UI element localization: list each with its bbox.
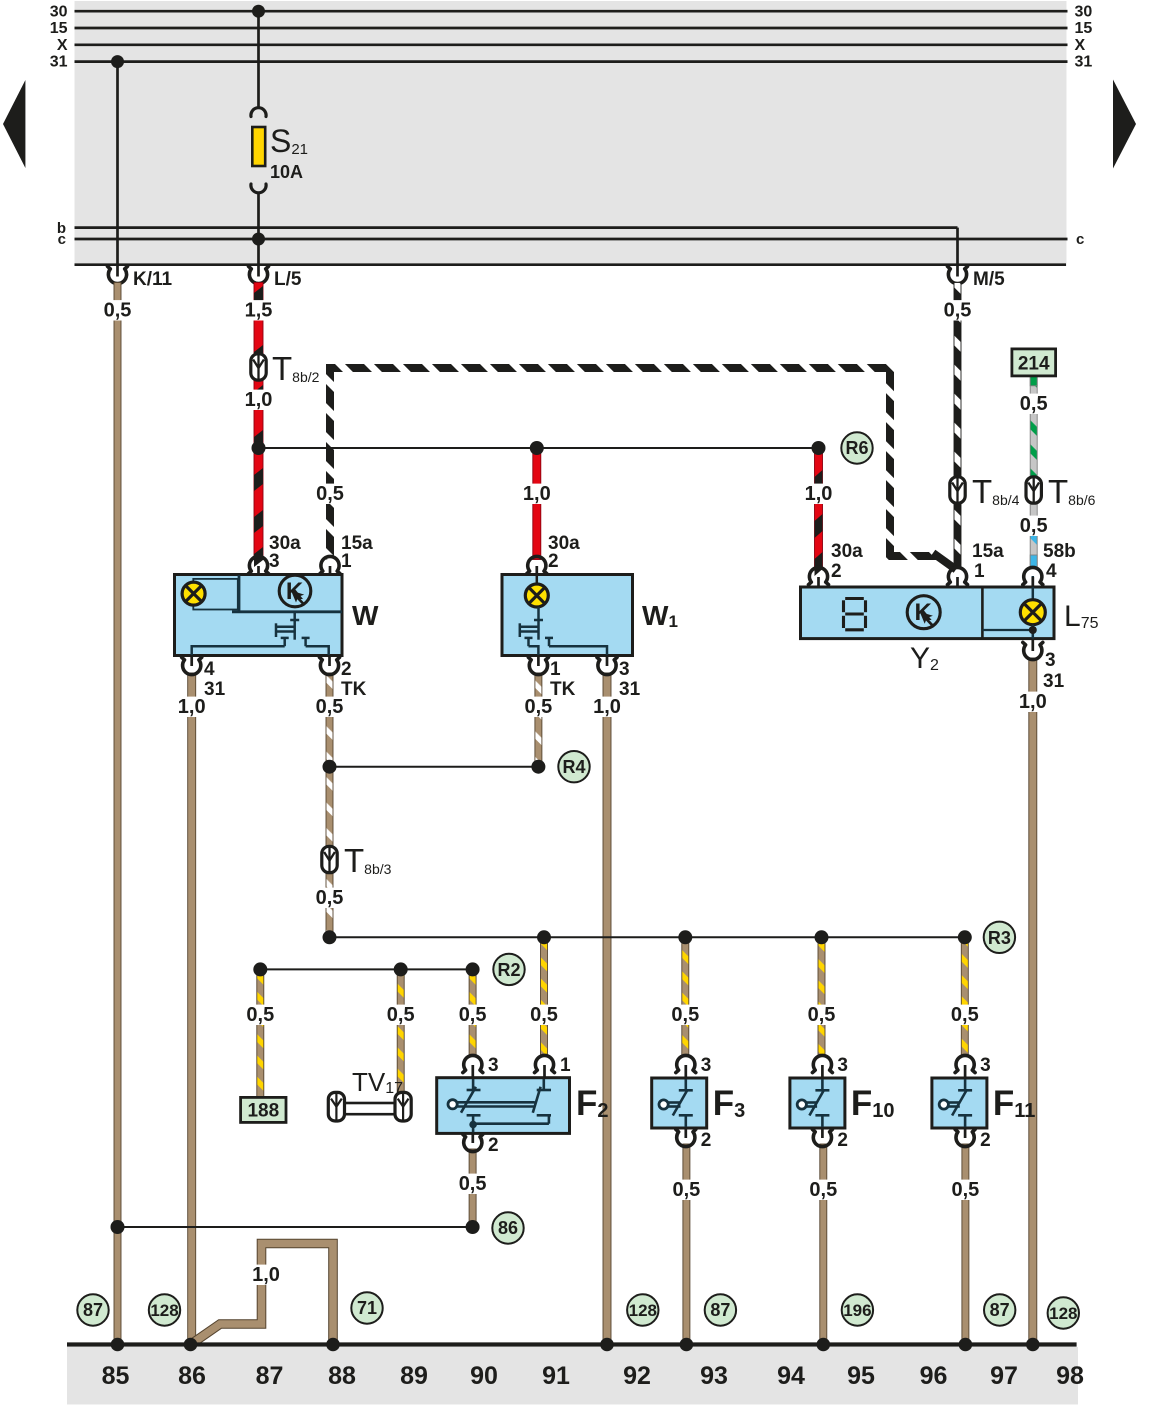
switch F3 (box)	[652, 1078, 707, 1128]
component W1 (box)	[502, 575, 633, 656]
svg-text:3: 3	[837, 1055, 848, 1076]
W1 output transistor	[520, 607, 607, 655]
node 87 (track97)	[984, 1294, 1015, 1325]
svg-text:3: 3	[488, 1055, 499, 1076]
connector T8b/6	[1026, 477, 1041, 503]
wire W pin4 brown 1,0 down to earth 86	[188, 673, 196, 1345]
junction dots R2 line	[253, 962, 267, 976]
svg-text:15: 15	[1075, 20, 1093, 37]
fuse S21 clip top	[251, 108, 266, 117]
svg-text:R6: R6	[845, 438, 868, 458]
wire to TV17 brown/yellow 0,5	[397, 969, 404, 1094]
svg-text:1: 1	[341, 551, 352, 572]
wire L/5 red/black 1,5 down to W pin3	[254, 283, 263, 560]
wire to F11 pin3 brown/yellow 0,5	[961, 937, 968, 1056]
svg-text:c: c	[58, 231, 66, 248]
node 128 (track92)	[627, 1294, 658, 1325]
wire to 188 brown/yellow 0,5	[257, 969, 264, 1097]
F2 internals	[457, 1079, 552, 1132]
wire F2 pin2 brown 0,5 to node 86	[469, 1149, 476, 1227]
svg-text:0,5: 0,5	[530, 1004, 558, 1026]
svg-text:96: 96	[920, 1362, 948, 1390]
svg-text:88: 88	[328, 1362, 356, 1390]
svg-text:15: 15	[50, 20, 68, 37]
striped black/white 15a run W pin1 to Y2 pin1	[330, 368, 936, 560]
W1 lamp	[536, 576, 539, 583]
wire to F10 pin3 brown/yellow 0,5	[818, 937, 825, 1056]
junction dots node 86 line	[111, 1220, 125, 1234]
L75 pin 3	[1031, 639, 1034, 651]
wire blue/grey 0,5 to L75 pin4	[1030, 490, 1037, 569]
svg-text:0,5: 0,5	[459, 1004, 487, 1026]
Y2 seven-segment digit	[844, 599, 866, 630]
svg-text:0,5: 0,5	[104, 300, 132, 322]
svg-text:c: c	[1076, 231, 1084, 248]
wire F11 pin2 brown 0,5 to earth	[962, 1144, 969, 1345]
node on bus 31	[111, 55, 124, 68]
svg-text:214: 214	[1018, 354, 1050, 375]
svg-text:0,5: 0,5	[246, 1004, 274, 1026]
svg-text:0,5: 0,5	[316, 887, 344, 909]
left page arrow	[3, 80, 25, 168]
svg-text:2: 2	[548, 551, 559, 572]
W pin 3	[257, 566, 260, 575]
svg-text:0,5: 0,5	[459, 1173, 487, 1195]
earth junction dots	[111, 1338, 125, 1352]
node on bus 30	[252, 5, 265, 18]
node line R3	[330, 936, 965, 938]
L75 lamp	[1032, 576, 1035, 600]
svg-text:0,5: 0,5	[316, 696, 344, 718]
wire size labels	[99, 300, 137, 320]
svg-text:1,0: 1,0	[1019, 691, 1047, 713]
wire K/11 brown 0,5 down to earth 85	[114, 283, 121, 1345]
svg-text:0,5: 0,5	[671, 1004, 699, 1026]
svg-text:1,0: 1,0	[178, 696, 206, 718]
switch F11 (box)	[932, 1078, 987, 1128]
svg-text:87: 87	[710, 1300, 730, 1320]
earth loop wire 1,0 track 87-88	[191, 1244, 334, 1345]
W clock symbol K	[279, 575, 311, 607]
svg-text:2: 2	[701, 1130, 712, 1151]
W relay sub-box	[232, 575, 342, 612]
svg-text:0,5: 0,5	[951, 1004, 979, 1026]
svg-text:87: 87	[990, 1300, 1010, 1320]
junction dots R3 line	[323, 930, 337, 944]
svg-text:98: 98	[1056, 1362, 1084, 1390]
svg-text:3: 3	[701, 1055, 712, 1076]
svg-text:0,5: 0,5	[387, 1004, 415, 1026]
F2 pin 3	[471, 1065, 474, 1078]
svg-text:91: 91	[542, 1362, 570, 1390]
F10 pin 2	[821, 1128, 824, 1138]
svg-text:31: 31	[50, 54, 68, 71]
svg-text:4: 4	[1046, 561, 1057, 582]
F2 pin 2	[471, 1133, 474, 1143]
svg-text:31: 31	[619, 679, 641, 700]
svg-text:87: 87	[83, 1300, 103, 1320]
svg-text:1: 1	[550, 659, 561, 680]
node 87 (track93)	[705, 1294, 736, 1325]
Y2 pin 2	[817, 577, 820, 587]
F3 pin 3	[684, 1065, 687, 1078]
svg-text:0,5: 0,5	[951, 1179, 979, 1201]
svg-text:3: 3	[1045, 650, 1056, 671]
svg-text:2: 2	[831, 561, 842, 582]
svg-text:0,5: 0,5	[524, 696, 552, 718]
svg-text:0,5: 0,5	[316, 483, 344, 505]
terminal box 188	[241, 1097, 286, 1122]
F11 pin 2	[964, 1128, 967, 1138]
node 86	[492, 1212, 523, 1243]
wire track b to M/5	[956, 228, 959, 266]
node R4	[558, 751, 589, 782]
svg-text:196: 196	[843, 1301, 871, 1320]
svg-text:90: 90	[470, 1362, 498, 1390]
svg-text:0,5: 0,5	[1020, 515, 1048, 537]
wire F10 pin2 brown 0,5 to earth	[820, 1144, 827, 1345]
switch F10 (box)	[790, 1078, 845, 1128]
W pin 4	[190, 656, 193, 667]
svg-text:128: 128	[150, 1301, 178, 1320]
top current-track band	[75, 1, 1067, 266]
F3 pin 2	[684, 1128, 687, 1138]
svg-text:2: 2	[980, 1130, 991, 1151]
bus 31	[75, 60, 1068, 63]
svg-text:188: 188	[247, 1101, 279, 1122]
wire F3 pin2 brown 0,5 to earth	[683, 1144, 690, 1345]
junction dots R6 line	[252, 441, 266, 455]
wire to F2 pin1 brown/yellow 0,5	[541, 937, 548, 1056]
svg-text:X: X	[57, 37, 68, 54]
bus 30	[75, 10, 1068, 13]
wire to F3 pin3 brown/yellow 0,5	[682, 937, 689, 1056]
58b wire blue tip	[1030, 555, 1037, 569]
wire M/5 black/white 0,5 down to Y2 pin1	[954, 283, 961, 569]
connector K/11	[116, 264, 119, 277]
connector L/5	[257, 264, 260, 277]
terminal box 214	[1012, 349, 1056, 376]
node 87 (track85)	[77, 1294, 108, 1325]
svg-text:30: 30	[50, 4, 68, 21]
right page arrow	[1113, 80, 1136, 169]
W lamp	[182, 582, 205, 605]
svg-text:TK: TK	[550, 679, 576, 700]
wire W1 pin1 TK brown/white 0,5	[535, 673, 542, 767]
svg-text:L/5: L/5	[274, 269, 302, 290]
svg-text:1,0: 1,0	[252, 1264, 280, 1286]
bus 15	[75, 27, 1068, 30]
svg-text:97: 97	[990, 1362, 1018, 1390]
node 128 (track98)	[1048, 1297, 1079, 1328]
svg-text:31: 31	[204, 679, 226, 700]
svg-text:31: 31	[1043, 671, 1065, 692]
node line R2	[260, 968, 472, 970]
wire Y2 pin2 red/black 1,0	[815, 448, 823, 569]
svg-text:30a: 30a	[831, 541, 863, 562]
svg-text:TK: TK	[341, 679, 367, 700]
svg-text:0,5: 0,5	[672, 1179, 700, 1201]
node line R6	[259, 447, 819, 449]
track b	[75, 226, 958, 229]
svg-text:71: 71	[357, 1298, 377, 1318]
svg-text:K/11: K/11	[133, 269, 173, 290]
wire from bus 30 to fuse S21	[257, 11, 260, 109]
component Y2 / L75 (box)	[801, 587, 1055, 639]
svg-text:1: 1	[974, 561, 985, 582]
W output transistor	[192, 612, 329, 655]
svg-text:2: 2	[488, 1135, 499, 1156]
node R3	[984, 922, 1015, 953]
Y2 clock symbol K	[907, 596, 940, 629]
svg-text:15a: 15a	[972, 541, 1004, 562]
W1 pin 3	[606, 656, 609, 667]
svg-text:93: 93	[700, 1362, 728, 1390]
svg-text:R3: R3	[988, 928, 1011, 948]
fuse S21 clip bottom	[251, 184, 266, 193]
node line R4	[330, 766, 539, 768]
wire fuse to track c	[257, 192, 260, 267]
node 128 (track86)	[149, 1294, 180, 1325]
svg-text:92: 92	[623, 1362, 651, 1390]
connector M/5	[956, 264, 959, 277]
connector T8b/4	[950, 477, 965, 503]
W pin 2	[328, 656, 331, 667]
wire L75 pin3 brown 1,0 down to earth 98	[1029, 658, 1037, 1345]
wire W1 pin3 brown 1,0 down to earth	[603, 673, 611, 1345]
L75 pin 4	[1031, 577, 1034, 587]
svg-text:128: 128	[1049, 1304, 1077, 1323]
svg-text:85: 85	[102, 1362, 130, 1390]
node on track c	[252, 233, 265, 246]
svg-text:1,0: 1,0	[523, 483, 551, 505]
svg-text:31: 31	[1075, 54, 1093, 71]
F11 pin 3	[964, 1065, 967, 1078]
node R6	[841, 432, 872, 463]
F2 pin 1	[543, 1065, 546, 1078]
svg-text:1,0: 1,0	[245, 389, 273, 411]
earth rail	[67, 1342, 1077, 1346]
wire 214 green/grey 0,5	[1030, 376, 1037, 490]
W lamp sub-box	[193, 579, 238, 610]
svg-text:58b: 58b	[1043, 541, 1076, 562]
svg-text:10A: 10A	[270, 162, 303, 182]
svg-text:30: 30	[1075, 4, 1093, 21]
wire bus 31 to K/11	[116, 62, 119, 266]
Y2/L75 divider	[981, 587, 984, 639]
svg-text:1,0: 1,0	[805, 483, 833, 505]
switch F2 (box)	[437, 1078, 570, 1134]
svg-text:94: 94	[777, 1362, 805, 1390]
svg-text:128: 128	[629, 1301, 657, 1320]
wire joint TV17	[328, 1092, 411, 1121]
svg-text:95: 95	[847, 1362, 875, 1390]
svg-text:2: 2	[341, 659, 352, 680]
wire W1 pin2 red 1,0	[533, 448, 541, 560]
svg-text:87: 87	[256, 1362, 284, 1390]
svg-text:86: 86	[178, 1362, 206, 1390]
node 71 (track88)	[351, 1292, 382, 1323]
svg-text:1: 1	[560, 1055, 571, 1076]
W pin 1	[329, 566, 332, 575]
junction dots R4 line	[323, 760, 337, 774]
svg-text:89: 89	[400, 1362, 428, 1390]
Y2 pin 1	[956, 577, 959, 587]
W1 pin 1	[537, 656, 540, 667]
track c	[75, 238, 1068, 241]
svg-text:X: X	[1075, 37, 1086, 54]
svg-text:86: 86	[498, 1218, 518, 1238]
svg-text:3: 3	[619, 659, 630, 680]
svg-text:1,0: 1,0	[593, 696, 621, 718]
svg-text:M/5: M/5	[973, 269, 1005, 290]
svg-text:0,5: 0,5	[1020, 393, 1048, 415]
svg-text:W: W	[352, 600, 379, 631]
F10 pin 3	[821, 1065, 824, 1078]
connector T8b/3	[322, 846, 337, 872]
node R2	[493, 954, 524, 985]
svg-text:1,5: 1,5	[245, 300, 273, 322]
fuse S21 body	[252, 127, 265, 166]
node 196 (track95)	[842, 1294, 873, 1325]
component W (box)	[175, 575, 343, 656]
svg-text:3: 3	[980, 1055, 991, 1076]
svg-text:R4: R4	[562, 757, 585, 777]
svg-text:0,5: 0,5	[944, 300, 972, 322]
svg-text:3: 3	[269, 551, 280, 572]
W1 pin 2	[535, 566, 538, 575]
node line 86	[118, 1226, 473, 1228]
svg-text:2: 2	[837, 1130, 848, 1151]
bus X	[75, 43, 1068, 46]
svg-text:0,5: 0,5	[809, 1179, 837, 1201]
wire to F2 pin3 brown/yellow 0,5	[469, 969, 476, 1056]
wire W pin2 TK brown/white 0,5	[326, 673, 333, 937]
connector T8b/2	[251, 354, 266, 380]
svg-text:0,5: 0,5	[808, 1004, 836, 1026]
svg-text:R2: R2	[497, 960, 520, 980]
svg-text:4: 4	[204, 659, 215, 680]
band bottom edge	[75, 263, 1067, 266]
